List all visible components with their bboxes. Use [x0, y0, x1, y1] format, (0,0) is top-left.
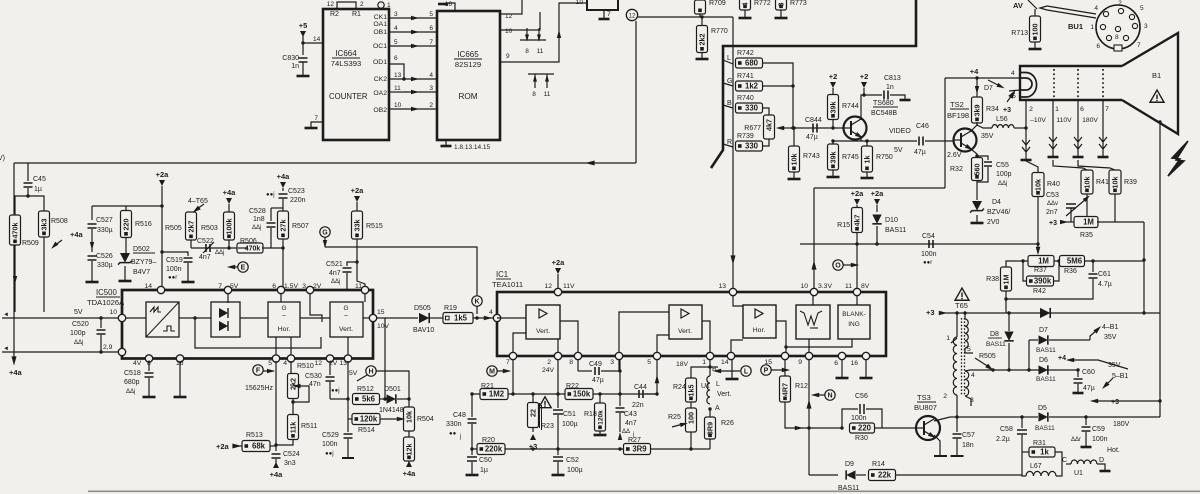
svg-text:C51: C51: [563, 411, 576, 418]
resistor R34 3k9: [972, 97, 983, 123]
svg-text:IC664: IC664: [335, 49, 357, 58]
wire CRT pin2 to L56 node: [1024, 126, 1027, 129]
IC1 BLANKING sub box: [838, 305, 870, 339]
svg-text:C59: C59: [1092, 426, 1105, 433]
svg-text:4: 4: [740, 3, 749, 7]
svg-text:TS3: TS3: [917, 393, 931, 402]
svg-text:D7: D7: [984, 85, 993, 92]
svg-text:8: 8: [1115, 34, 1119, 41]
lightning bolt EHT symbol: [1168, 141, 1188, 176]
wire long row y394: [472, 393, 656, 395]
svg-text:R513: R513: [246, 432, 263, 439]
svg-text:12: 12: [314, 360, 322, 367]
svg-text:IC500: IC500: [96, 288, 117, 297]
capacitor C527 330u: [91, 206, 93, 220]
svg-text:390k: 390k: [1034, 277, 1052, 286]
svg-text:IC665: IC665: [457, 50, 479, 59]
svg-text:R508: R508: [51, 218, 68, 225]
IC1 Vert amplifier box 2: [669, 305, 702, 339]
svg-text:BAS11: BAS11: [1035, 425, 1055, 432]
svg-text:D10: D10: [885, 217, 898, 224]
spark gaps under CRT pins: [1025, 100, 1027, 159]
svg-text:5: 5: [429, 11, 433, 18]
svg-text:5: 5: [647, 359, 651, 366]
svg-text:CK2: CK2: [374, 76, 387, 83]
svg-text:N: N: [827, 393, 832, 400]
svg-text:47µ: 47µ: [1083, 385, 1095, 392]
svg-text:1: 1: [1090, 24, 1094, 31]
svg-text:7: 7: [607, 11, 611, 18]
svg-text:39k: 39k: [828, 152, 837, 164]
svg-text:680p: 680p: [124, 379, 140, 386]
svg-text:1N4148: 1N4148: [379, 407, 404, 414]
svg-text:5V: 5V: [349, 370, 358, 377]
svg-text:100n: 100n: [851, 415, 867, 422]
svg-text:2n7: 2n7: [1046, 209, 1058, 216]
IC1 pin circles top: [554, 288, 561, 295]
svg-text:T65: T65: [955, 301, 968, 310]
svg-text:4k7: 4k7: [764, 119, 773, 131]
ROM bottom pins 1.8.13.14.15 with ground: [445, 140, 447, 145]
transistor TS680 BC548B: [844, 117, 867, 140]
transformer secondary upper coil: [964, 313, 966, 319]
resistor R713 100 with ground: [1034, 9, 1036, 16]
IC IC665 82S129 ROM: [437, 11, 500, 140]
svg-text:4k7: 4k7: [852, 215, 861, 227]
svg-text:–10V: –10V: [1030, 117, 1046, 124]
capacitor C45 1u: [27, 163, 29, 181]
svg-text:BAS11: BAS11: [1036, 376, 1056, 383]
AV double line arrow: [1040, 6, 1096, 18]
svg-text:Hor.: Hor.: [753, 327, 766, 334]
capacitor C48 330n: [471, 394, 473, 417]
svg-text:68k: 68k: [252, 442, 266, 451]
svg-text:●●j: ●●j: [325, 451, 334, 457]
svg-text:●●r: ●●r: [923, 260, 932, 266]
svg-text:12: 12: [327, 1, 335, 8]
svg-text:3.3V: 3.3V: [818, 283, 832, 290]
capacitor C43 4n7: [619, 394, 621, 406]
svg-text:C: C: [1062, 457, 1067, 464]
wire R14 to C58 column: [896, 474, 1023, 476]
svg-text:R36: R36: [1064, 268, 1077, 275]
svg-text:4: 4: [489, 309, 493, 316]
svg-text:C523: C523: [288, 188, 305, 195]
svg-text:47µ: 47µ: [914, 149, 926, 156]
svg-text:10k: 10k: [404, 411, 413, 423]
svg-text:470k: 470k: [245, 246, 261, 253]
pin 7 ground of top box: [603, 10, 605, 18]
wire R505 bottom to junction row: [190, 240, 192, 248]
supply rail +4a left edge with arrow: [13, 163, 15, 360]
svg-text:D501: D501: [384, 386, 401, 393]
svg-text:R772: R772: [754, 0, 771, 7]
svg-text:C844: C844: [805, 117, 822, 124]
svg-text:4: 4: [394, 25, 398, 32]
svg-text:R504: R504: [417, 416, 434, 423]
svg-text:+4a: +4a: [403, 469, 417, 478]
svg-text:ΔΔr: ΔΔr: [1071, 437, 1081, 443]
resistor R773 with ground: [776, 0, 787, 10]
svg-text:C524: C524: [283, 451, 300, 458]
svg-text:1k: 1k: [862, 156, 871, 164]
svg-text:R37: R37: [1034, 267, 1047, 274]
svg-text:16: 16: [850, 360, 858, 367]
svg-text:R514: R514: [358, 427, 375, 434]
diode on top wire: [1040, 308, 1050, 318]
svg-text:IC1: IC1: [496, 270, 508, 279]
IC1 pin 14 ground: [731, 360, 733, 379]
svg-text:1n8: 1n8: [253, 216, 265, 223]
svg-text:Vert.: Vert.: [339, 326, 353, 333]
svg-text:5M6: 5M6: [1067, 257, 1083, 266]
svg-text:10k: 10k: [1033, 179, 1042, 191]
svg-text:R677: R677: [744, 125, 761, 132]
wire R35 to right loop: [1097, 221, 1144, 223]
svg-text:330µ: 330µ: [97, 262, 113, 269]
svg-text:ROM: ROM: [458, 92, 477, 101]
svg-text:L: L: [744, 369, 749, 376]
svg-text:10: 10: [800, 283, 808, 290]
svg-text:7: 7: [314, 115, 318, 122]
node L circle: [741, 366, 751, 376]
IC1 AFC sub box with curve: [796, 305, 830, 339]
pin 1 open circle on IC664: [378, 2, 384, 8]
node M circle with arrow: [487, 366, 497, 376]
svg-text:R770: R770: [711, 28, 728, 35]
IC1 pin 5 column: [656, 360, 658, 395]
svg-text:18n: 18n: [962, 442, 974, 449]
capacitor C518 680p with ground: [148, 361, 150, 371]
svg-text:2: 2: [1118, 0, 1122, 7]
svg-text:G: G: [343, 305, 348, 312]
svg-text:C53: C53: [1046, 192, 1059, 199]
svg-text:8: 8: [569, 359, 573, 366]
svg-text:100n: 100n: [921, 251, 937, 258]
long wire from node 12 down and left: [635, 21, 637, 163]
svg-text:ΔΔj: ΔΔj: [74, 340, 83, 346]
svg-text:U1: U1: [1074, 470, 1083, 477]
svg-text:ΔΔj: ΔΔj: [252, 225, 261, 231]
wire IC1 pin10 to CRT gun via top route: [813, 188, 815, 263]
capacitor C530 47n: [329, 361, 331, 375]
parallel wires R37 R42: [1023, 261, 1028, 281]
svg-text:R32: R32: [950, 166, 963, 173]
wire R12 down to TS3 base row: [785, 402, 841, 428]
svg-text:R25: R25: [668, 414, 681, 421]
svg-text:1k5: 1k5: [686, 385, 695, 397]
svg-text:R24: R24: [673, 384, 686, 391]
svg-text:10: 10: [505, 28, 513, 35]
bus wires counter to ROM with arrowheads: [390, 17, 437, 19]
svg-text:◄: ◄: [3, 346, 9, 352]
resistor R18 120k with ground: [599, 394, 601, 403]
svg-text:C54: C54: [922, 233, 935, 240]
svg-text:R741: R741: [737, 73, 754, 80]
svg-text:C58: C58: [1000, 426, 1013, 433]
svg-text:11: 11: [544, 91, 551, 98]
svg-text:+4a: +4a: [223, 188, 237, 197]
svg-text:4.7µ: 4.7µ: [1098, 281, 1112, 288]
svg-text:ΔΔ: ΔΔ: [622, 429, 630, 435]
svg-text:7: 7: [506, 359, 510, 366]
svg-text:22n: 22n: [632, 402, 644, 409]
svg-text:1k5: 1k5: [454, 314, 468, 323]
svg-text:C56: C56: [855, 393, 868, 400]
svg-text:D5: D5: [1038, 405, 1047, 412]
node H circle: [366, 366, 376, 376]
svg-text:C50: C50: [479, 457, 492, 464]
svg-text:11k: 11k: [288, 422, 297, 434]
resistor R40 10k: [1026, 161, 1038, 173]
resistor R26 3R9: [709, 409, 711, 418]
svg-text:+4a: +4a: [9, 368, 23, 377]
svg-text:R740: R740: [737, 95, 754, 102]
svg-text:470k: 470k: [10, 223, 19, 239]
svg-text:R510: R510: [297, 363, 314, 370]
svg-text:R35: R35: [1080, 232, 1093, 239]
resistor R507 27k: [278, 211, 289, 239]
svg-text:100µ: 100µ: [562, 421, 578, 428]
wiper arrow R514 to R504: [380, 418, 401, 420]
svg-text:COUNTER: COUNTER: [329, 92, 368, 101]
svg-text:+4a: +4a: [270, 470, 284, 479]
svg-text:◄: ◄: [3, 312, 9, 318]
svg-text:10k: 10k: [1110, 177, 1119, 189]
IC500 pin circles: [157, 286, 164, 293]
CRT grid dotted lines: [1053, 69, 1055, 98]
svg-text:11: 11: [394, 85, 401, 92]
svg-text:120k: 120k: [360, 415, 378, 424]
svg-text:D: D: [1099, 457, 1104, 464]
svg-text:+3: +3: [926, 308, 935, 317]
svg-text:330: 330: [745, 104, 759, 113]
svg-text:C61: C61: [1098, 271, 1111, 278]
resistor R743 10k with ground: [793, 128, 795, 146]
svg-text:2V0: 2V0: [987, 219, 1000, 226]
svg-text:R742: R742: [737, 50, 754, 57]
svg-text:C521: C521: [326, 261, 343, 268]
svg-text:560: 560: [972, 164, 981, 176]
vertical wire from D505 line to D501: [384, 318, 386, 399]
svg-text:330µ: 330µ: [97, 227, 113, 234]
+3 return wire bottom right: [1090, 399, 1098, 404]
svg-text:D9: D9: [845, 461, 854, 468]
wire from node 12 to R770 and IC1 pin 13 column: [638, 16, 733, 18]
svg-text:1k2: 1k2: [745, 82, 759, 91]
svg-text:●●j: ●●j: [331, 388, 340, 394]
svg-text:220n: 220n: [290, 197, 306, 204]
svg-text:2,9: 2,9: [103, 344, 113, 351]
svg-text:3: 3: [429, 85, 433, 92]
svg-text:R750: R750: [876, 154, 893, 161]
svg-text:10k: 10k: [789, 154, 798, 166]
svg-text:9: 9: [798, 359, 802, 366]
TS2 collector node to L56: [971, 122, 977, 131]
svg-text:10: 10: [394, 102, 402, 109]
svg-text:R505: R505: [979, 353, 996, 360]
svg-text:D4: D4: [992, 199, 1001, 206]
svg-text:100: 100: [686, 412, 695, 424]
resistor R508 3k3: [28, 196, 44, 211]
module bracket thick outline: [711, 0, 916, 168]
svg-text:j: j: [459, 434, 461, 440]
svg-text:+4: +4: [970, 67, 979, 76]
svg-text:C45: C45: [33, 176, 46, 183]
wire R742 R741 to video node: [763, 63, 794, 128]
svg-text:+2a: +2a: [216, 442, 230, 451]
svg-text:TS2: TS2: [950, 100, 964, 109]
svg-text:13: 13: [339, 360, 347, 367]
svg-text:11: 11: [537, 48, 544, 55]
svg-text:G: G: [322, 230, 328, 237]
resistor R41 10k: [1053, 160, 1087, 170]
IC1 Vert amplifier box 1: [526, 305, 560, 339]
wire row C54: [800, 243, 1038, 245]
svg-text:C527: C527: [96, 217, 113, 224]
svg-text:1n: 1n: [291, 63, 299, 70]
svg-text:R14: R14: [872, 461, 885, 468]
svg-text:4: 4: [1011, 70, 1015, 77]
svg-text:BZV46/: BZV46/: [987, 209, 1010, 216]
svg-text:C60: C60: [1082, 369, 1095, 376]
wire TS3 collector row to C58: [957, 416, 1022, 418]
svg-text:R38: R38: [986, 276, 999, 283]
resistor R744 39k: [828, 95, 839, 120]
connector symbol 8 11 upper: [520, 39, 546, 41]
arrow into R37 from R40 column: [1036, 242, 1039, 245]
svg-text:R516: R516: [135, 221, 152, 228]
svg-text:K: K: [474, 299, 479, 306]
capacitor C520 100p: [99, 316, 102, 319]
svg-text:13: 13: [718, 283, 726, 290]
svg-text:G: G: [281, 305, 286, 312]
svg-text:D505: D505: [414, 305, 431, 312]
svg-text:D8: D8: [990, 331, 999, 338]
svg-text:18V: 18V: [676, 361, 689, 368]
svg-text:2: 2: [1029, 106, 1033, 113]
svg-text:R2: R2: [330, 11, 339, 18]
IC1 pin 15 column: [784, 360, 786, 377]
resistor R709: [699, 0, 701, 2]
pin 14 wire into IC664: [303, 42, 323, 44]
svg-text:1µ: 1µ: [480, 467, 488, 474]
node 12 circle: [626, 9, 637, 20]
svg-text:+4: +4: [1058, 355, 1066, 362]
svg-text:●●r: ●●r: [168, 275, 177, 281]
svg-text:R34: R34: [986, 106, 999, 113]
svg-text:11V: 11V: [563, 283, 575, 290]
svg-text:1µ: 1µ: [34, 186, 42, 193]
svg-text:47µ: 47µ: [592, 377, 604, 384]
svg-text:R40: R40: [1047, 181, 1060, 188]
IC IC664 74LS393 counter: [323, 9, 389, 140]
svg-text:L67: L67: [1030, 463, 1042, 470]
node N circle with arrow: [825, 390, 835, 400]
svg-text:R41: R41: [1096, 179, 1109, 186]
svg-text:+2a: +2a: [871, 189, 885, 198]
resistor R745 39k with ground: [831, 139, 834, 142]
IC1 pin 16 ground: [865, 360, 867, 378]
svg-text:4: 4: [1094, 5, 1098, 12]
IC500 inner wires: [227, 293, 229, 303]
svg-text:BU1: BU1: [1068, 22, 1083, 31]
svg-text:B4V7: B4V7: [133, 269, 150, 276]
svg-text:2k7: 2k7: [186, 221, 195, 233]
svg-text:●●j: ●●j: [266, 192, 275, 198]
svg-text:3: 3: [394, 11, 398, 18]
svg-text:5: 5: [268, 360, 272, 367]
resistor R42 390k: [1027, 276, 1054, 286]
svg-text:L: L: [716, 381, 720, 388]
svg-text:1M2: 1M2: [489, 390, 505, 399]
capacitor C50 1u with ground: [471, 449, 473, 455]
connector symbol 8 11 lower: [528, 73, 554, 75]
svg-text:8: 8: [776, 3, 785, 7]
svg-text:3n3: 3n3: [284, 460, 296, 467]
svg-text:+3: +3: [1111, 399, 1119, 406]
svg-text:10: 10: [576, 0, 584, 6]
svg-text:330n: 330n: [446, 421, 462, 428]
svg-text:3k3: 3k3: [39, 219, 48, 231]
svg-text:8: 8: [532, 91, 536, 98]
zener diode D4 BZV46 2V0 with ground: [976, 181, 978, 201]
IC500 pin 5 column: [275, 361, 277, 451]
svg-text:B1: B1: [1152, 71, 1161, 80]
svg-text:9: 9: [506, 53, 510, 60]
svg-text:1: 1: [1055, 106, 1059, 113]
svg-text:U1: U1: [701, 383, 710, 390]
svg-text:ΔΔv: ΔΔv: [1047, 201, 1058, 207]
svg-text:220: 220: [858, 424, 872, 433]
svg-text:2k2: 2k2: [288, 378, 297, 390]
svg-text:12k: 12k: [404, 444, 413, 456]
wire top of transformer row y313: [940, 312, 1160, 314]
svg-text:82S129: 82S129: [455, 60, 481, 69]
svg-text:5: 5: [1140, 5, 1144, 12]
svg-text:●●: ●●: [449, 431, 457, 437]
svg-text:R505: R505: [165, 225, 182, 232]
svg-text:R709: R709: [709, 0, 726, 7]
svg-text:BAS11: BAS11: [885, 227, 906, 234]
svg-text:7: 7: [429, 39, 433, 46]
potentiometer R510 2k2: [290, 361, 292, 374]
IC1 pin 6 ground: [841, 360, 843, 378]
TS2 emitter to R32: [971, 149, 977, 158]
svg-text:C530: C530: [305, 373, 322, 380]
svg-text:R12: R12: [795, 383, 808, 390]
svg-text:OB1: OB1: [373, 29, 387, 36]
svg-text:H: H: [368, 369, 373, 376]
svg-text:D502: D502: [133, 246, 150, 253]
node F circle with arrow: [253, 365, 263, 375]
svg-text:C46: C46: [916, 123, 929, 130]
svg-text:14: 14: [721, 359, 729, 366]
svg-text:10k: 10k: [1082, 177, 1091, 189]
svg-text:12: 12: [628, 13, 636, 20]
wire TS3 base: [875, 427, 917, 429]
transformer core dashed: [961, 318, 963, 395]
node 18V and resistor R24 1k5: [691, 360, 710, 379]
svg-text:+5: +5: [299, 21, 308, 30]
svg-text:C49: C49: [589, 361, 602, 368]
svg-text:C529: C529: [322, 432, 339, 439]
svg-text:Vert.: Vert.: [536, 328, 550, 335]
svg-text:4R7: 4R7: [780, 383, 789, 396]
svg-text:14: 14: [313, 36, 321, 43]
svg-text:R31: R31: [1033, 440, 1046, 447]
svg-text:2.2µ: 2.2µ: [996, 436, 1010, 443]
